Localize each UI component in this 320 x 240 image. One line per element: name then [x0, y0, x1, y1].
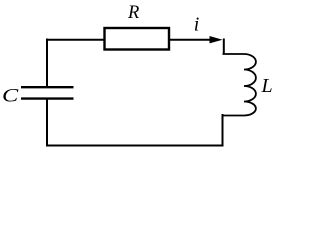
svg-text:L: L — [261, 75, 273, 97]
resistor R box — [105, 28, 170, 50]
inductor L coil — [222, 54, 256, 116]
svg-text:i: i — [194, 14, 200, 36]
wire right vertical upper — [223, 39, 225, 55]
capacitor C bottom plate — [21, 97, 74, 99]
wire left vertical upper — [46, 39, 48, 87]
svg-text:R: R — [127, 3, 139, 23]
wire bottom horizontal — [46, 145, 224, 147]
svg-text:C: C — [2, 85, 19, 106]
wire resistor to corner — [170, 39, 213, 41]
wire top-left horizontal — [46, 39, 105, 41]
wire left vertical lower — [46, 99, 48, 147]
wire right vertical lower — [222, 114, 224, 147]
current arrow head — [210, 36, 223, 43]
capacitor C top plate — [21, 86, 74, 88]
